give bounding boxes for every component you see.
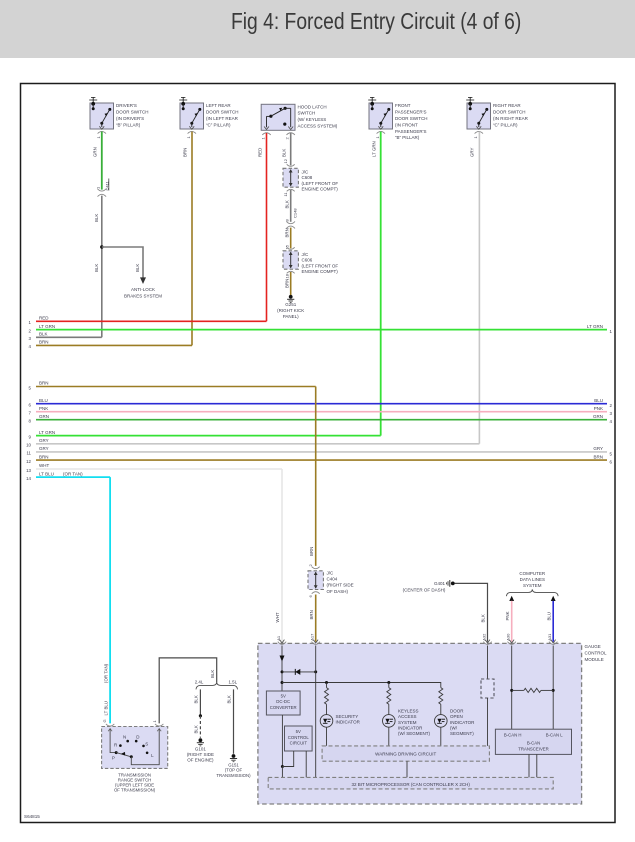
svg-text:CONVERTER: CONVERTER [270,705,297,710]
svg-text:DOOR SWITCH: DOOR SWITCH [206,110,239,115]
svg-text:WARNING DRIVING CIRCUIT: WARNING DRIVING CIRCUIT [375,752,436,757]
svg-text:DOOR SWITCH: DOOR SWITCH [493,110,526,115]
svg-text:LT GRN: LT GRN [39,324,55,329]
wire Z1 to warning circuit [487,698,489,746]
indicator lamp door open indicator [435,715,448,746]
svg-text:1: 1 [261,137,266,140]
wire A32 internal [487,646,489,680]
diode D1 between A1 and A17 lines [282,669,317,675]
bus wire 6 BLU [29,398,613,408]
junction A1/diode [281,670,284,673]
resistor supply rail [282,683,441,688]
svg-text:J/C: J/C [302,252,310,257]
svg-text:PNK: PNK [505,611,510,620]
svg-text:BLK: BLK [210,670,215,678]
brace split 2.4L / 1.5L [196,682,238,689]
switch S1 driver's door switch [89,97,148,134]
bus wire 4 BRN [29,340,192,350]
wire control circuit right leg to microprocessor [305,751,307,777]
wire BRN row5 vertical to module A17 [315,387,317,566]
svg-text:BLK: BLK [194,725,199,733]
svg-text:PNK: PNK [39,406,48,411]
ground G151 top of transmission [230,754,237,762]
svg-text:2: 2 [610,403,613,408]
wire BLK dashed to G101 [199,716,201,738]
junction connector J/C C606 (left front of engine compt) [283,247,298,273]
svg-text:18: 18 [285,273,290,278]
wire junction to microprocessor [281,767,283,778]
junction dot [281,765,284,768]
svg-text:LT GRN: LT GRN [372,141,377,157]
arrow PNK to computer data lines [509,596,514,601]
svg-text:“B” PILLAR): “B” PILLAR) [116,122,141,127]
svg-text:HOOD LATCH: HOOD LATCH [298,104,327,109]
svg-text:PASSENGER'S: PASSENGER'S [395,110,427,115]
svg-text:DRIVER'S: DRIVER'S [116,103,137,108]
wire BLK from pin 1 to grounds [159,658,217,724]
wire BLU to module A31 [552,601,554,642]
switch S2 left rear door switch [179,97,238,134]
switch S4 front passenger's door switch [368,97,427,140]
bus wire 7 PNK [29,406,613,416]
bus wire 9 LT GRN [29,430,381,440]
bus wire 2 LT GRN [29,324,613,334]
svg-text:GAUGE: GAUGE [585,644,601,649]
junction to anti-lock [100,245,103,248]
svg-text:3: 3 [29,336,32,341]
svg-text:ACCESS: ACCESS [398,714,417,719]
wire BRN left rear switch to bus row 4 [191,132,193,346]
svg-text:N: N [123,734,126,739]
wire BLK branch 1.5L to G151 [233,689,235,753]
svg-text:J/C: J/C [327,571,335,576]
svg-text:TRANSMISSION): TRANSMISSION) [216,773,251,778]
svg-text:SEGMENT): SEGMENT) [450,731,474,736]
wire BLK branch 2.4L [199,689,201,715]
ground G101 right side of engine [197,738,204,746]
svg-text:10: 10 [26,443,31,448]
svg-text:GRY: GRY [470,147,475,157]
svg-text:MODULE: MODULE [585,657,604,662]
svg-text:1: 1 [610,329,613,334]
svg-text:OF DASH): OF DASH) [327,589,349,594]
svg-text:BLK: BLK [285,200,290,208]
junction connector J/C C608 (left front of engine compt) [283,164,298,191]
svg-text:BLK: BLK [194,695,199,703]
svg-text:DC-DC: DC-DC [276,699,290,704]
svg-text:BLK: BLK [481,614,486,622]
svg-text:DOOR SWITCH: DOOR SWITCH [395,116,428,121]
svg-text:1: 1 [186,136,191,139]
wire BLK branch to anti-lock brakes [102,247,143,278]
pin entry A31 [551,640,556,643]
svg-text:LEFT REAR: LEFT REAR [206,103,231,108]
svg-text:(RIGHT SIDE: (RIGHT SIDE [187,752,214,757]
bus wire 14 LT BLU [26,471,110,481]
svg-text:G251: G251 [285,302,297,307]
wire DC-DC to junction [281,715,283,767]
svg-text:DOOR SWITCH: DOOR SWITCH [116,110,149,115]
wire A31 internal [552,646,554,730]
svg-text:PASSENGER'S: PASSENGER'S [395,129,427,134]
svg-text:BRN: BRN [309,547,314,556]
svg-text:INDICATOR: INDICATOR [336,719,361,724]
bus wire 10 GRY [26,438,479,448]
svg-text:(LEFT FRONT OF: (LEFT FRONT OF [302,181,339,186]
junction dot on 2.4L branch [199,714,202,717]
svg-text:4: 4 [610,419,613,424]
svg-text:5: 5 [29,385,32,390]
svg-text:1: 1 [29,320,32,325]
svg-text:ANTI-LOCK: ANTI-LOCK [131,287,155,292]
svg-text:G: G [102,719,107,722]
svg-text:TRANSCEIVER: TRANSCEIVER [518,747,549,752]
svg-text:BLU: BLU [594,398,603,403]
svg-text:(IN DRIVER'S: (IN DRIVER'S [116,116,144,121]
svg-text:J/C: J/C [302,170,310,175]
svg-text:(W/: (W/ [450,725,458,730]
svg-text:ENGINE COMPT): ENGINE COMPT) [302,187,339,192]
svg-text:13: 13 [26,468,31,473]
svg-text:SYSTEM: SYSTEM [398,720,417,725]
svg-text:14: 14 [26,476,31,481]
svg-text:1: 1 [375,136,380,139]
wire LT BLU row14 vertical to transmission range switch [109,477,111,723]
svg-text:OF ENGINE): OF ENGINE) [187,758,214,763]
wire GRY right rear switch to bus row 10 [478,132,480,444]
B-CAN transceiver [495,729,571,754]
arrow down on A1 line [280,656,285,662]
svg-text:4: 4 [29,344,32,349]
svg-text:BRN: BRN [39,454,49,459]
svg-text:(RIGHT SIDE: (RIGHT SIDE [327,583,354,588]
svg-text:5V: 5V [296,729,301,734]
svg-text:(RIGHT KICK: (RIGHT KICK [277,308,304,313]
wire control circuit L to junction [282,751,293,767]
wire WHT row13 vertical to module A1 [281,469,283,642]
svg-text:GRY: GRY [593,446,603,451]
svg-text:S: S [145,742,148,747]
svg-text:(OR TAN): (OR TAN) [103,663,108,683]
bus wire 1 RED [29,316,267,326]
svg-text:C148: C148 [293,208,298,218]
bus wire 5 BRN [29,381,316,391]
wire A17 internal to microprocessor [315,646,317,778]
svg-text:(IN RIGHT REAR: (IN RIGHT REAR [493,116,529,121]
svg-text:BLU: BLU [39,398,48,403]
svg-text:3: 3 [610,411,613,416]
svg-text:INDICATOR: INDICATOR [398,725,423,730]
svg-text:B-CAN: B-CAN [527,741,540,746]
ground G401 center of dash [446,580,454,587]
warning driving circuit [322,746,489,761]
svg-text:GRY: GRY [39,446,49,451]
svg-text:(CENTER OF DASH): (CENTER OF DASH) [403,588,446,593]
svg-text:PNK: PNK [594,406,603,411]
component Z1 (noise filter) on A32 line [481,679,494,698]
resistor R1 [325,681,329,715]
svg-text:2: 2 [285,137,290,140]
svg-text:GRN: GRN [93,147,98,157]
svg-text:DATA LINES: DATA LINES [520,577,545,582]
wire BLK G401 to module A32 [455,583,488,641]
svg-text:GRN: GRN [39,414,49,419]
svg-text:12: 12 [283,158,288,163]
wire BRN to ground [290,272,292,295]
svg-text:GRN: GRN [593,414,603,419]
svg-text:RED: RED [257,148,262,157]
svg-text:9: 9 [29,434,32,439]
svg-text:SYSTEM: SYSTEM [523,583,542,588]
svg-text:GRY: GRY [39,438,49,443]
svg-text:12: 12 [26,459,31,464]
svg-text:BRN: BRN [183,148,188,157]
svg-text:BRN: BRN [285,228,290,237]
svg-text:LT BLU: LT BLU [103,701,108,715]
svg-text:6: 6 [308,595,313,598]
svg-text:LT BLU: LT BLU [39,471,54,476]
svg-text:5: 5 [610,451,613,456]
svg-text:BLK: BLK [94,214,99,222]
svg-text:“C” PILLAR): “C” PILLAR) [206,122,231,127]
svg-text:5V: 5V [281,694,286,699]
termination resistor R4 between A30 and A31 [510,688,555,692]
svg-text:6: 6 [610,460,613,465]
svg-text:BLU: BLU [546,612,551,621]
indicator lamp security indicator [320,715,333,746]
bus wire 12 BRN [26,454,612,464]
header bar [0,0,635,58]
svg-text:BLK: BLK [39,332,48,337]
svg-text:C608: C608 [302,175,313,180]
wire PNK to module A30 [511,601,513,642]
5V DC-DC converter [266,691,300,715]
svg-text:P: P [112,756,115,761]
svg-text:RIGHT REAR: RIGHT REAR [493,103,521,108]
switch S5 right rear door switch [466,97,528,134]
wires B-CAN to microprocessor [528,754,530,777]
svg-text:SWITCH: SWITCH [298,111,316,116]
5V control circuit [285,726,313,751]
svg-text:2: 2 [308,564,313,567]
junction connector J/C C404 (right side of dash) [308,567,323,594]
svg-text:8: 8 [29,419,32,424]
svg-text:BLK: BLK [94,264,99,272]
svg-text:(IN LEFT REAR: (IN LEFT REAR [206,116,239,121]
svg-text:OPEN: OPEN [450,714,463,719]
svg-text:WHT: WHT [39,463,49,468]
svg-text:“B” PILLAR): “B” PILLAR) [395,135,420,140]
svg-text:DOOR: DOOR [450,709,464,714]
svg-text:8: 8 [285,219,290,222]
wire warning circuit to microprocessor [406,761,408,777]
svg-text:SECURITY: SECURITY [336,714,359,719]
arrow to anti-lock brakes system [140,277,146,284]
arrow BLU to computer data lines [551,596,556,601]
svg-text:2.4L: 2.4L [195,679,204,684]
svg-text:WHT: WHT [275,612,280,622]
svg-text:C606: C606 [302,258,313,263]
bus wire 3 BLK [29,332,102,342]
svg-text:ACCESS SYSTEM): ACCESS SYSTEM) [298,124,338,129]
wire BLK below J/C [290,190,292,222]
svg-text:INDICATOR: INDICATOR [450,720,475,725]
ground G251 [287,295,294,303]
svg-text:BLK: BLK [227,695,232,703]
svg-text:7: 7 [29,411,32,416]
svg-text:FRONT: FRONT [395,103,411,108]
svg-text:11: 11 [283,192,288,197]
wire A30 internal [511,646,513,730]
svg-text:G101: G101 [195,747,207,752]
switch S3 hood latch switch [261,104,338,135]
svg-text:KEYLESS: KEYLESS [398,709,419,714]
wire RED hood latch to bus row 1 [266,133,268,321]
pin entry A17 [313,640,318,643]
svg-text:S64815: S64815 [24,814,40,819]
svg-text:CONTROL: CONTROL [585,651,607,656]
brace over data line arrows [507,589,559,596]
svg-text:RED: RED [39,316,49,321]
svg-text:BRN: BRN [285,279,290,288]
svg-text:ENGINE COMPT): ENGINE COMPT) [302,269,339,274]
svg-text:LT GRN: LT GRN [587,324,603,329]
wire A1 internal [281,646,283,692]
svg-text:(OR TAN): (OR TAN) [63,471,83,476]
pin entry A30 [509,640,514,643]
svg-text:CIRCUIT: CIRCUIT [290,740,308,745]
wire BLK driver switch to bus [101,196,103,338]
svg-text:(LEFT FRONT OF: (LEFT FRONT OF [302,263,339,268]
svg-text:COMPUTER: COMPUTER [519,571,546,576]
svg-text:LT GRN: LT GRN [39,430,55,435]
svg-text:BRN: BRN [39,381,49,386]
svg-text:1: 1 [96,136,101,139]
svg-text:6: 6 [29,403,32,408]
svg-text:11: 11 [26,451,31,456]
wire GRN from driver door switch [101,132,103,190]
resistor R2 [387,681,391,715]
svg-text:“C” PILLAR): “C” PILLAR) [493,122,518,127]
svg-text:1: 1 [152,720,157,723]
bus wire 8 GRN [29,414,613,424]
pin entry A1 [280,640,285,643]
svg-text:PANEL): PANEL) [283,314,299,319]
svg-text:OF TRANSMISSION): OF TRANSMISSION) [114,788,156,793]
svg-text:BLK: BLK [135,264,140,272]
connector C411 [96,179,110,197]
resistor R3 [439,688,443,715]
svg-text:2: 2 [29,328,32,333]
svg-text:BLK: BLK [282,149,287,157]
svg-text:1: 1 [473,136,478,139]
wire BLK hood latch [290,133,292,165]
svg-text:(IN FRONT: (IN FRONT [395,122,418,127]
gauge control module [258,643,582,804]
svg-text:1.5L: 1.5L [229,679,238,684]
svg-text:BRAKES SYSTEM: BRAKES SYSTEM [124,293,162,298]
junction A1/resistor rail [281,681,284,684]
32 bit microprocessor [268,777,553,789]
svg-text:(W/ KEYLESS: (W/ KEYLESS [298,117,327,122]
transmission range switch [102,724,168,769]
svg-text:G401: G401 [434,581,446,586]
svg-text:1: 1 [96,186,101,189]
svg-text:BRN: BRN [593,454,603,459]
wire LT GRN front passenger switch to bus row 9 [380,132,382,436]
pin entry A32 [485,640,490,643]
svg-text:C404: C404 [327,577,338,582]
svg-text:32 BIT MICROPROCESSOR (CAN CON: 32 BIT MICROPROCESSOR (CAN CONTROLLER X … [351,782,470,787]
bus wire 13 WHT [26,463,282,473]
svg-text:BRN: BRN [39,340,49,345]
wire BRN below J/C C404 to module A17 [315,595,317,642]
wire BRN to second J/C [290,228,292,249]
indicator lamp keyless access system indicator [383,715,396,746]
svg-text:CONTROL: CONTROL [288,735,310,740]
svg-text:B-CAN L: B-CAN L [546,733,564,738]
bus wire 11 GRY [26,446,612,456]
svg-text:BRN: BRN [309,610,314,619]
svg-text:B-CAN H: B-CAN H [504,733,522,738]
svg-text:(W/ SEGMENT): (W/ SEGMENT) [398,731,430,736]
